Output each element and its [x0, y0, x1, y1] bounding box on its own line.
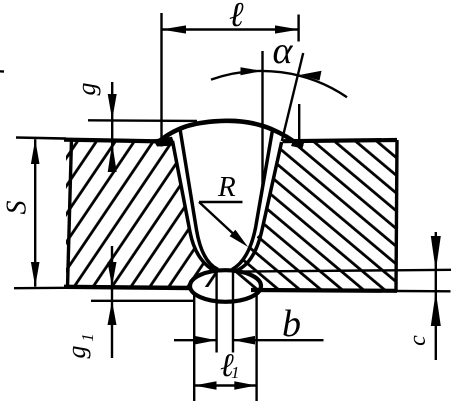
right plate bottom edge — [251, 288, 397, 293]
svg-text:R: R — [217, 171, 236, 203]
dimension l1: right arrowhead — [234, 381, 256, 389]
dimension l: left arrowhead — [162, 25, 187, 33]
svg-text:g: g — [62, 346, 91, 359]
left groove face (outer wall line) — [173, 141, 217, 272]
dimension b: right-pointing arrowhead — [195, 336, 217, 345]
dimension g: vertical line — [111, 82, 113, 171]
dimension g1: vertical line — [111, 246, 113, 358]
svg-text:1: 1 — [78, 333, 97, 342]
angle alpha: vertical leg — [261, 51, 263, 187]
right plate top edge — [283, 140, 398, 141]
left plate top edge — [16, 138, 66, 139]
angle alpha: slanted leg (groove face extended) — [282, 53, 303, 141]
dimension l: right arrowhead — [275, 25, 299, 33]
right plate right edge — [396, 140, 397, 291]
right plate (hatched body) — [233, 140, 397, 291]
R leader arrowhead — [230, 230, 248, 247]
dimension l: dimension line — [162, 28, 300, 30]
weld cap (reinforcement bead) — [158, 121, 303, 148]
dimension g: cap-top thin extension line — [88, 119, 197, 122]
alpha arc arrowhead (right-pointing at vertical leg) — [241, 67, 263, 75]
dimension b: dimension line left segment — [174, 339, 217, 341]
svg-text:g: g — [72, 83, 101, 96]
svg-text:1: 1 — [231, 363, 240, 382]
weld toe junction right — [291, 140, 305, 149]
left plate left edge — [68, 139, 72, 288]
root gap edge right / b extension — [232, 272, 234, 353]
R leader: diagonal with arrow — [199, 202, 240, 240]
dimension l1: right extension line — [255, 292, 257, 401]
dimension l: left extension line — [160, 13, 162, 147]
dimension l: right extension line (two segments) — [297, 15, 299, 42]
right root-face line / c top extension — [237, 270, 451, 272]
alpha arc arrowhead (left-pointing at slanted leg) — [301, 71, 322, 81]
dimension l1: left arrowhead — [194, 381, 216, 389]
left weld fusion line (inner wall line) — [180, 129, 218, 270]
dimension l1: left extension line — [193, 292, 195, 401]
angle alpha: dimension arc — [211, 71, 347, 97]
c bottom extension line — [397, 290, 451, 293]
dimension c: down arrowhead — [431, 236, 441, 271]
dimension b: left-pointing arrowhead — [233, 336, 255, 345]
weld toe junction left — [153, 137, 175, 147]
root gap edge left / b extension — [215, 272, 217, 353]
left plate (hatched body) — [66, 139, 217, 287]
dimension c: vertical line — [435, 232, 437, 360]
dimension g1: down arrowhead — [108, 262, 117, 287]
svg-text:α: α — [273, 30, 294, 72]
R leader: horizontal segment — [199, 201, 243, 203]
dimension g1: up arrowhead — [108, 301, 117, 325]
left plate bottom edge — [64, 287, 191, 288]
dimension l1: dimension line — [194, 384, 256, 386]
stray scan dash top-left — [0, 70, 4, 73]
weld root bead (ellipse) — [190, 270, 261, 302]
svg-text:b: b — [282, 303, 301, 345]
svg-text:c: c — [405, 335, 431, 346]
right weld fusion line (inner wall line) — [232, 130, 273, 270]
S bottom extension line — [14, 287, 66, 290]
dimension b: dimension line right segment — [233, 339, 324, 341]
dimension g1: root-bottom thin extension line — [91, 300, 195, 302]
dimension S: vertical line with arrows — [34, 139, 36, 286]
svg-text:ℓ: ℓ — [229, 0, 244, 34]
dimension c: up arrowhead — [431, 292, 441, 327]
svg-text:S: S — [2, 201, 33, 215]
dimension g: up arrowhead — [108, 143, 117, 172]
dimension g: down arrowhead — [108, 94, 117, 120]
right groove face (outer wall line) — [233, 142, 282, 272]
